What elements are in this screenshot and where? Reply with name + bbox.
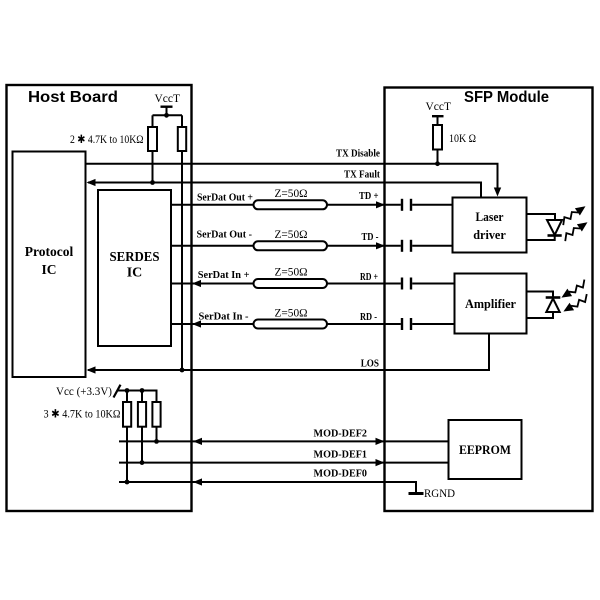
capacitor C1 <box>402 199 411 211</box>
wire C1 to laser driver <box>412 204 452 206</box>
svg-text:TD +: TD + <box>359 191 379 202</box>
svg-text:3 ✱ 4.7K to 10KΩ: 3 ✱ 4.7K to 10KΩ <box>44 409 121 421</box>
arrow SerDat In + into SERDES <box>192 280 201 287</box>
transmission line Z4 <box>254 320 328 329</box>
svg-text:EEPROM: EEPROM <box>459 442 511 457</box>
wire RD - to cap <box>327 323 401 325</box>
light emission arrow 2 <box>561 219 590 243</box>
svg-text:Protocol: Protocol <box>25 244 74 259</box>
wire R2 to LOS <box>181 151 183 370</box>
host board box <box>7 85 192 511</box>
svg-text:Z=50Ω: Z=50Ω <box>275 186 308 200</box>
svg-text:SerDat In +: SerDat In + <box>198 270 250 281</box>
svg-text:SERDES: SERDES <box>110 250 160 265</box>
svg-text:Z=50Ω: Z=50Ω <box>275 227 308 241</box>
wire LOS <box>88 334 489 371</box>
transmission line Z1 <box>254 200 328 209</box>
svg-text:MOD-DEF0: MOD-DEF0 <box>314 469 368 480</box>
wire R1 to TX Fault <box>152 151 154 183</box>
wire MOD-DEF0 <box>119 482 416 493</box>
wire TD + to cap <box>327 204 401 206</box>
wire to R4 top <box>126 391 128 403</box>
svg-text:SerDat Out -: SerDat Out - <box>197 230 253 241</box>
wire TX Fault <box>88 183 481 198</box>
amplifier U2 box <box>455 274 527 334</box>
arrow MOD-DEF2 into SFP <box>376 438 385 445</box>
wire MOD-DEF2 <box>119 440 449 442</box>
arrow TX Fault into protocol IC <box>87 179 96 186</box>
svg-text:IC: IC <box>41 262 56 277</box>
node R5/MOD-DEF1 junction <box>140 460 145 465</box>
svg-text:Laser: Laser <box>476 209 504 224</box>
node R4/MOD-DEF0 junction <box>125 480 130 485</box>
node VccT junction <box>164 113 169 118</box>
capacitor C4 <box>402 318 411 330</box>
wire R5 to MOD-DEF1 <box>141 427 143 463</box>
resistor R1 pull-up <box>148 127 157 151</box>
arrow TX Disable into laser driver <box>494 188 501 197</box>
wire Vcc rail <box>118 391 157 403</box>
wire RD + to cap <box>327 283 401 285</box>
resistor R5 pull-up <box>138 402 146 427</box>
wire C2 to laser driver <box>412 245 452 247</box>
wire TX Disable <box>86 164 498 189</box>
transmission line Z2 <box>254 241 328 250</box>
node R3/TX Disable junction <box>435 161 440 166</box>
svg-text:TX Fault: TX Fault <box>344 170 380 181</box>
ground RGND <box>409 492 424 495</box>
wire SerDat Out - left <box>171 245 254 247</box>
svg-text:LOS: LOS <box>361 359 379 370</box>
svg-text:RD +: RD + <box>360 272 378 283</box>
EEPROM U3 box <box>449 420 522 479</box>
arrow SerDat In - into SERDES <box>192 320 201 327</box>
light receive arrow 2 <box>561 293 590 315</box>
wire to R5 top <box>141 391 143 403</box>
svg-text:SFP Module: SFP Module <box>464 89 549 106</box>
wire R3 to TX Disable <box>437 150 439 164</box>
wire to R2 top <box>181 115 183 127</box>
svg-text:RD -: RD - <box>360 312 377 323</box>
VccT rail bar (SFP) <box>432 116 444 125</box>
wire R6 to MOD-DEF2 <box>156 427 158 442</box>
capacitor C3 <box>402 278 411 290</box>
svg-text:RGND: RGND <box>424 486 455 500</box>
wire VccT split <box>153 114 183 116</box>
Vcc rail slash symbol <box>114 385 121 398</box>
photodiode D2 <box>527 292 561 319</box>
resistor R6 pull-up <box>152 402 160 427</box>
resistor R2 pull-up <box>178 127 186 151</box>
arrow MOD-DEF0 into host <box>193 478 202 485</box>
svg-text:driver: driver <box>473 227 506 242</box>
VccT rail bar (host) <box>161 107 173 116</box>
svg-text:2 ✱ 4.7K to 10KΩ: 2 ✱ 4.7K to 10KΩ <box>70 134 144 146</box>
light emission arrow 1 <box>559 203 588 227</box>
arrow MOD-DEF1 into SFP <box>376 459 385 466</box>
wire TD - to cap <box>327 245 401 247</box>
svg-text:Z=50Ω: Z=50Ω <box>275 265 308 279</box>
svg-text:TX Disable: TX Disable <box>336 149 380 160</box>
arrow LOS into protocol IC <box>87 366 96 373</box>
laser diode D1 <box>527 214 563 240</box>
wire SerDat In - left <box>171 323 254 325</box>
svg-text:Host Board: Host Board <box>28 89 118 106</box>
arrow TD - into SFP <box>376 242 385 249</box>
wire C4 to amplifier <box>412 323 454 325</box>
protocol IC box <box>13 152 86 378</box>
arrow TD + into SFP <box>376 201 385 208</box>
node Vcc rail junction 2 <box>140 388 145 393</box>
transmission line Z3 <box>254 279 328 288</box>
resistor R3 10K pull-up <box>433 125 442 150</box>
wire SerDat In + left <box>171 283 254 285</box>
svg-text:VccT: VccT <box>426 99 452 113</box>
wire to R1 top <box>152 115 154 127</box>
wire MOD-DEF1 <box>119 462 449 464</box>
node Vcc rail junction 1 <box>125 388 130 393</box>
svg-text:Z=50Ω: Z=50Ω <box>275 306 308 320</box>
capacitor C2 <box>402 240 411 252</box>
SFP module box <box>385 88 593 512</box>
laser driver U1 box <box>453 198 527 253</box>
light receive arrow 1 <box>559 278 588 301</box>
svg-text:MOD-DEF1: MOD-DEF1 <box>314 450 368 461</box>
arrow MOD-DEF2 into host <box>193 438 202 445</box>
svg-text:VccT: VccT <box>155 91 181 105</box>
node R2/LOS junction <box>180 368 185 373</box>
SERDES IC box <box>98 190 171 346</box>
wire R4 to MOD-DEF0 <box>126 427 128 482</box>
wire C3 to amplifier <box>412 283 454 285</box>
svg-text:TD -: TD - <box>362 232 379 243</box>
svg-text:Vcc (+3.3V): Vcc (+3.3V) <box>56 386 112 398</box>
svg-text:IC: IC <box>127 266 143 281</box>
svg-text:SerDat In -: SerDat In - <box>199 312 249 323</box>
node R1/TX Fault junction <box>150 180 155 185</box>
wire SerDat Out + left <box>171 204 254 206</box>
svg-text:SerDat Out +: SerDat Out + <box>197 193 253 204</box>
node R6/MOD-DEF2 junction <box>154 439 159 444</box>
svg-text:MOD-DEF2: MOD-DEF2 <box>314 429 368 440</box>
resistor R4 pull-up <box>123 402 131 427</box>
svg-text:Amplifier: Amplifier <box>465 296 516 311</box>
svg-text:10K Ω: 10K Ω <box>449 131 476 145</box>
